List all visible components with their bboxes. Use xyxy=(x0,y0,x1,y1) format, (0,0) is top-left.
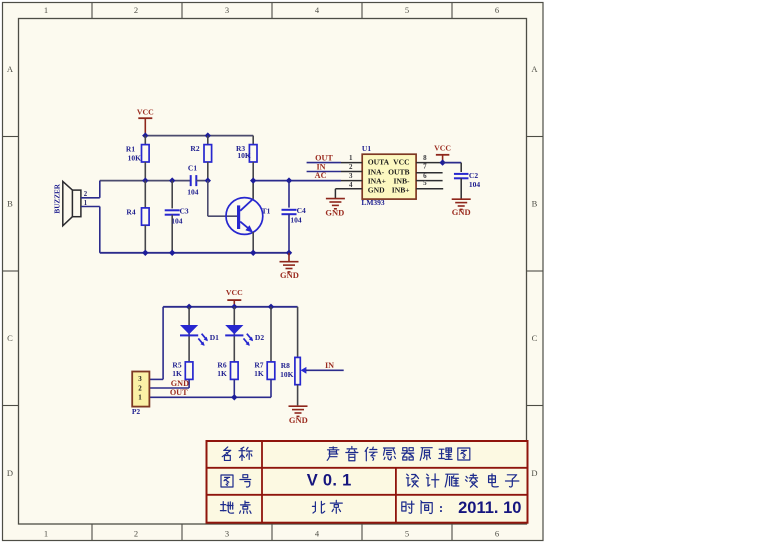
svg-text:C4: C4 xyxy=(297,206,306,215)
svg-text:2011. 10: 2011. 10 xyxy=(458,499,521,517)
potentiometer R8 xyxy=(297,307,299,358)
title text 声音传感器原理图 xyxy=(327,447,339,461)
svg-text:3: 3 xyxy=(225,5,229,15)
wire mid node (buzzer to C1) xyxy=(100,180,191,182)
svg-text:1K: 1K xyxy=(254,369,264,378)
LED D1 xyxy=(188,307,190,362)
ground (U1 pin4) xyxy=(326,198,345,200)
svg-text:INA-: INA- xyxy=(368,167,385,176)
svg-text:GND: GND xyxy=(325,208,344,218)
wire R2 bottom to transistor base xyxy=(207,181,209,217)
pin 5 (INB+) xyxy=(416,188,443,190)
svg-text:VCC: VCC xyxy=(137,108,154,117)
svg-text:D1: D1 xyxy=(210,333,219,342)
junction R7 top xyxy=(268,304,274,310)
wire pin4 to ground xyxy=(334,189,336,198)
svg-text:IN: IN xyxy=(325,361,334,370)
svg-text:2: 2 xyxy=(134,529,138,539)
svg-text:1: 1 xyxy=(349,154,353,162)
ground (R8) xyxy=(289,405,308,407)
svg-text:R4: R4 xyxy=(126,208,135,217)
svg-text:104: 104 xyxy=(171,217,183,226)
junction emitter bottom xyxy=(250,250,256,256)
junction R2 top xyxy=(205,132,211,138)
wire LED top rail xyxy=(163,306,298,308)
svg-text:3: 3 xyxy=(225,529,229,539)
svg-text:GND: GND xyxy=(289,415,308,425)
svg-text:6: 6 xyxy=(495,5,499,15)
resistor R4 xyxy=(144,181,146,208)
junction VCC/D2 xyxy=(231,304,237,310)
svg-text:P2: P2 xyxy=(132,407,141,416)
svg-text:AC: AC xyxy=(315,171,327,180)
svg-text:BUZZER: BUZZER xyxy=(54,183,62,213)
svg-text:GND: GND xyxy=(280,270,299,280)
svg-text:104: 104 xyxy=(469,180,481,189)
title text 设计雁凌电子 xyxy=(406,474,418,487)
svg-text:OUT: OUT xyxy=(170,388,188,397)
junction R6 bottom xyxy=(231,394,237,400)
svg-text:C2: C2 xyxy=(469,171,478,180)
svg-text:C: C xyxy=(532,333,538,343)
svg-text:104: 104 xyxy=(187,188,199,197)
wire output node to U1 pin3 (AC) xyxy=(253,180,341,182)
capacitor C1 xyxy=(190,175,192,186)
wire net IN stub xyxy=(307,171,341,173)
pin 7 (OUTB) xyxy=(416,172,443,174)
junction C4 bottom xyxy=(286,250,292,256)
wire buzzer to mid rail xyxy=(99,181,101,198)
svg-text:5: 5 xyxy=(405,529,409,539)
svg-text:1: 1 xyxy=(44,5,48,15)
title text 地点 xyxy=(220,502,233,514)
pin 3 (INA+) xyxy=(341,180,362,182)
svg-text:4: 4 xyxy=(349,181,353,189)
wire emitter down xyxy=(252,232,254,253)
svg-text:1K: 1K xyxy=(172,369,182,378)
svg-text:2: 2 xyxy=(134,5,138,15)
svg-text:INB+: INB+ xyxy=(392,185,410,194)
svg-text:VCC: VCC xyxy=(434,143,451,152)
junction VCC/R1 xyxy=(142,132,148,138)
wiper arrow xyxy=(301,367,307,374)
title text 时间: 2011.10 xyxy=(402,501,414,513)
svg-text:INA+: INA+ xyxy=(368,176,386,185)
svg-text:3: 3 xyxy=(349,172,353,180)
svg-text:6: 6 xyxy=(495,529,499,539)
resistor R3 xyxy=(252,136,254,145)
svg-text:C1: C1 xyxy=(188,163,197,172)
svg-text:INB-: INB- xyxy=(394,176,411,185)
wire pin8 to C2 xyxy=(443,162,462,164)
pin 8 (VCC) xyxy=(416,162,443,164)
pin 4 (GND) xyxy=(335,188,362,190)
junction C1/R2/base xyxy=(205,177,211,183)
svg-text:1K: 1K xyxy=(217,369,227,378)
svg-text:OUTA: OUTA xyxy=(368,158,390,167)
svg-text:1: 1 xyxy=(138,394,142,402)
svg-text:D: D xyxy=(7,468,13,478)
transistor T1 xyxy=(226,198,263,235)
svg-text:10K: 10K xyxy=(237,151,251,160)
svg-text:3: 3 xyxy=(138,375,142,383)
svg-text:T1: T1 xyxy=(262,206,271,215)
wire rail to P2 pin3 xyxy=(162,307,164,380)
svg-text:1: 1 xyxy=(84,200,88,207)
title text 名称 xyxy=(222,447,231,461)
connector P2 xyxy=(132,372,149,407)
junction D1 anode xyxy=(186,304,192,310)
junction C4 top xyxy=(286,177,292,183)
wire bottom rail (ground rail) xyxy=(100,252,289,254)
svg-text:C3: C3 xyxy=(180,206,189,215)
svg-text:D2: D2 xyxy=(255,333,264,342)
svg-text:A: A xyxy=(7,64,14,74)
svg-text:GND: GND xyxy=(368,185,385,194)
wire P2 pin2 (GND net) xyxy=(149,387,189,389)
title block xyxy=(207,441,528,523)
capacitor C2 xyxy=(454,173,469,175)
svg-text:VCC: VCC xyxy=(226,288,243,297)
junction C3 top xyxy=(169,177,175,183)
svg-text:A: A xyxy=(531,64,538,74)
resistor R2 xyxy=(207,136,209,145)
svg-text:OUTB: OUTB xyxy=(388,167,410,176)
wire P2 pin1 (OUT net) xyxy=(149,396,271,398)
svg-text:10K: 10K xyxy=(280,370,294,379)
LED D2 xyxy=(233,307,235,362)
buzzer pin 1 xyxy=(81,206,100,208)
wire VCC top rail xyxy=(145,135,253,137)
svg-text:7: 7 xyxy=(423,163,427,171)
ground (bottom rail) xyxy=(288,253,290,261)
pin 1 (OUTA) xyxy=(341,162,362,164)
svg-text:8: 8 xyxy=(423,154,427,162)
junction collector/output xyxy=(250,177,256,183)
junction pin8/VCC xyxy=(439,159,445,165)
svg-text:R1: R1 xyxy=(126,144,135,153)
svg-text:OUT: OUT xyxy=(315,154,333,163)
pin 2 (INA-) xyxy=(341,171,362,173)
capacitor C4 xyxy=(288,181,290,208)
resistor R7 xyxy=(270,307,272,362)
svg-text:U1: U1 xyxy=(362,144,371,153)
svg-text:B: B xyxy=(532,199,538,209)
ground (C2) xyxy=(452,198,471,200)
wire collector up to R3 xyxy=(252,181,254,199)
svg-text:VCC: VCC xyxy=(393,158,409,167)
svg-text:R2: R2 xyxy=(190,144,199,153)
junction C3 bottom xyxy=(169,250,175,256)
svg-text:R8: R8 xyxy=(281,361,290,370)
junction R4 bottom xyxy=(142,250,148,256)
op-amp U1 LM393 xyxy=(362,154,416,199)
wire net OUT stub xyxy=(307,162,341,164)
svg-text:2: 2 xyxy=(349,163,353,171)
svg-text:LM393: LM393 xyxy=(361,198,385,207)
svg-text:V 0. 1: V 0. 1 xyxy=(307,471,352,489)
svg-text:1: 1 xyxy=(44,529,48,539)
svg-text:5: 5 xyxy=(423,179,427,187)
junction R1 bottom xyxy=(142,177,148,183)
svg-text:GND: GND xyxy=(452,207,471,217)
wire buzzer to bottom rail xyxy=(99,207,101,253)
svg-text:5: 5 xyxy=(405,5,409,15)
title text 图号 xyxy=(221,475,233,487)
svg-text:2: 2 xyxy=(84,191,88,198)
svg-text:B: B xyxy=(7,199,13,209)
resistor R6 xyxy=(231,362,239,380)
buzzer pin 2 xyxy=(81,197,100,199)
title text 北京 xyxy=(312,501,324,513)
resistor R1 xyxy=(144,136,146,145)
svg-text:GND: GND xyxy=(171,379,189,388)
svg-text:10K: 10K xyxy=(128,153,142,162)
svg-text::: : xyxy=(439,500,443,515)
pin 6 (INB-) xyxy=(416,180,443,182)
svg-text:2: 2 xyxy=(138,384,142,392)
wire IN net xyxy=(306,369,344,371)
svg-text:D: D xyxy=(531,468,537,478)
svg-text:104: 104 xyxy=(290,215,302,224)
svg-text:C: C xyxy=(7,333,13,343)
capacitor C3 xyxy=(171,181,173,209)
buzzer LS1 xyxy=(72,190,81,217)
resistor R5 xyxy=(185,362,193,380)
